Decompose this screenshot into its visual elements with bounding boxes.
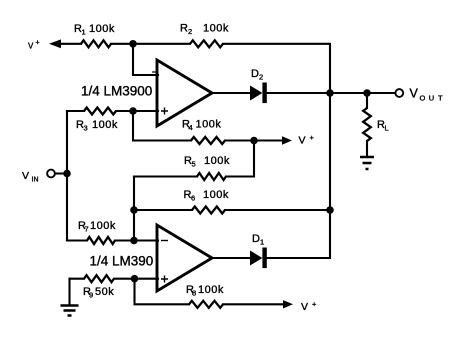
svg-text:V: V [299, 135, 306, 147]
svg-text:100k: 100k [203, 23, 229, 35]
svg-text:100k: 100k [203, 189, 229, 201]
svg-text:R: R [180, 23, 188, 35]
svg-text:IN: IN [32, 177, 39, 184]
svg-text:U: U [429, 93, 434, 102]
svg-text:1/4 LM3900: 1/4 LM3900 [81, 84, 152, 99]
svg-text:8: 8 [192, 289, 196, 298]
svg-text:V: V [22, 170, 29, 182]
svg-text:2: 2 [188, 27, 192, 36]
svg-text:4: 4 [189, 123, 193, 132]
svg-text:V: V [410, 87, 419, 101]
svg-text:V: V [28, 42, 34, 51]
svg-text:V: V [301, 301, 308, 313]
svg-text:100k: 100k [92, 119, 118, 131]
svg-text:1: 1 [82, 28, 86, 37]
svg-text:9: 9 [89, 291, 93, 300]
svg-text:100k: 100k [204, 155, 230, 167]
svg-text:3: 3 [84, 124, 88, 133]
svg-text:T: T [438, 93, 443, 102]
svg-text:D: D [252, 233, 260, 245]
svg-text:L: L [385, 124, 389, 133]
svg-text:100k: 100k [90, 220, 116, 232]
svg-text:+: + [312, 300, 317, 309]
svg-text:D: D [251, 68, 259, 80]
svg-text:1: 1 [260, 238, 264, 247]
svg-text:2: 2 [259, 73, 263, 82]
svg-text:6: 6 [191, 194, 195, 203]
svg-text:5: 5 [192, 160, 196, 169]
svg-text:1/4 LM390: 1/4 LM390 [90, 254, 154, 269]
svg-text:+: + [310, 133, 315, 142]
svg-text:100k: 100k [89, 23, 115, 35]
svg-text:100k: 100k [198, 284, 224, 296]
svg-text:+: + [36, 40, 40, 47]
svg-text:100k: 100k [196, 119, 222, 131]
svg-text:50k: 50k [95, 286, 114, 298]
svg-text:7: 7 [85, 225, 89, 234]
svg-text:O: O [420, 93, 426, 102]
